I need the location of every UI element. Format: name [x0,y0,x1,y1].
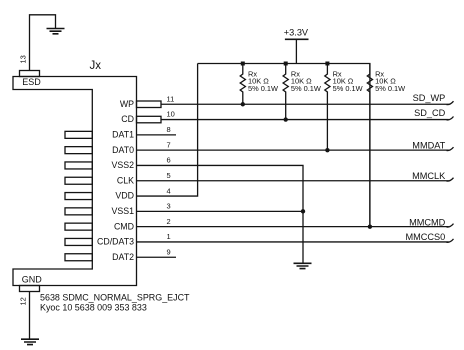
wire DAT2 stub [137,256,177,258]
svg-text:MMCLK: MMCLK [412,171,446,181]
wire CD/DAT3 to MMCCS0 [137,241,449,243]
wire +3.3V pull-up bus [198,64,370,227]
wire WP to SD_WP [161,103,449,105]
svg-text:GND: GND [22,274,43,284]
junction VSS1/ground rail [301,209,305,213]
connector U/Jx outline (C-shaped card connector body) [13,77,137,286]
svg-text:5: 5 [167,171,171,180]
svg-text:DAT0: DAT0 [112,145,134,155]
connector contact fingers (left column of 9 boxes) [65,131,92,260]
svg-text:MMCCS0: MMCCS0 [405,232,445,242]
svg-text:CMD: CMD [114,221,134,231]
wire VDD up to +3.3V bus [137,64,198,197]
svg-text:VSS1: VSS1 [112,206,135,216]
net tick MMCMD [447,224,454,227]
svg-text:5% 0.1W: 5% 0.1W [291,84,321,93]
net tick MMCLK [447,178,454,181]
svg-text:SD_CD: SD_CD [414,108,446,118]
svg-text:10: 10 [167,110,175,119]
svg-text:VSS2: VSS2 [112,160,135,170]
wire CD to SD_CD [161,119,449,121]
wire CMD to MMCMD [137,226,449,228]
net tick MMCCS0 [447,239,454,242]
svg-text:9: 9 [167,247,171,256]
svg-text:5% 0.1W: 5% 0.1W [333,84,363,93]
wire CLK to MMCLK [137,180,449,182]
svg-text:4: 4 [167,186,171,195]
svg-text:12: 12 [19,297,28,305]
svg-text:DAT2: DAT2 [112,252,134,262]
svg-text:5638 SDMC_NORMAL_SPRG_EJCT: 5638 SDMC_NORMAL_SPRG_EJCT [40,292,190,302]
wire DAT1 stub [137,134,177,136]
svg-text:CLK: CLK [117,175,134,185]
resistor R4 (Rx 10K pull-up on CMD) [367,64,405,229]
svg-text:DAT1: DAT1 [112,130,134,140]
svg-text:11: 11 [167,94,175,103]
resistor R2 (Rx 10K pull-up on CD) [283,62,321,122]
connector pin 12 box (GND) [20,286,40,292]
net tick SD_WP [447,101,454,104]
svg-text:CD: CD [121,114,134,124]
pin WP / pin 11 switch box [137,101,162,108]
svg-text:ESD: ESD [22,77,41,87]
svg-text:3: 3 [167,202,171,211]
svg-text:Jx: Jx [90,60,102,72]
ground (bottom-left, GND pin 12) [21,292,39,345]
wire VSS1 to ground rail [137,210,304,212]
svg-text:CD/DAT3: CD/DAT3 [97,237,134,247]
wire DAT0 to MMDAT [137,149,449,151]
net tick SD_CD [447,117,454,120]
svg-text:5% 0.1W: 5% 0.1W [248,84,278,93]
resistor R3 (Rx 10K pull-up on DAT0) [325,62,363,153]
svg-text:7: 7 [167,140,171,149]
power +3.3V [284,28,309,64]
wire VSS2 to ground rail [137,165,304,263]
svg-text:WP: WP [120,99,134,109]
svg-text:13: 13 [19,55,28,63]
svg-text:1: 1 [167,232,171,241]
svg-text:6: 6 [167,156,171,165]
svg-text:VDD: VDD [115,191,134,201]
resistor R1 (Rx 10K pull-up on WP) [240,62,278,107]
svg-text:SD_WP: SD_WP [413,93,446,103]
svg-text:+3.3V: +3.3V [284,28,309,38]
svg-text:MMCMD: MMCMD [409,217,446,227]
ground (VSS rail) [294,263,312,268]
svg-text:MMDAT: MMDAT [412,140,445,150]
net tick MMDAT [447,147,454,150]
ground (top-left, ESD shield) [30,15,65,71]
svg-text:2: 2 [167,217,171,226]
svg-text:5% 0.1W: 5% 0.1W [375,84,405,93]
svg-text:8: 8 [167,125,171,134]
connector J1 pin 13 box (ESD) [20,71,40,77]
svg-text:Kyoc 10 5638 009 353 833: Kyoc 10 5638 009 353 833 [40,303,147,313]
pin CD / pin 10 switch box [137,116,162,123]
